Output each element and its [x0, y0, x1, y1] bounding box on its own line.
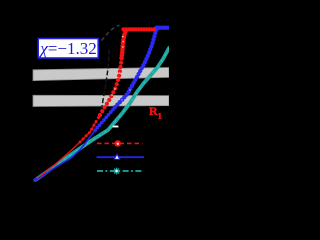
- svg-text:χ=−1.32: χ=−1.32: [38, 39, 96, 58]
